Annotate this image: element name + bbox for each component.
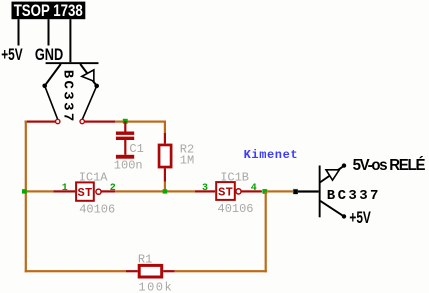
pin R2 top red (164, 133, 166, 144)
wire black to Q2 base (298, 190, 319, 192)
svg-text:100n: 100n (114, 158, 143, 172)
IC module TSOP1738 body (12, 2, 86, 21)
wire right vertical to R1 (265, 191, 267, 272)
svg-text:GND: GND (35, 47, 64, 65)
svg-text:BC337: BC337 (327, 188, 381, 204)
wire bottom orange left (25, 270, 126, 272)
pin IC1B input red (195, 190, 215, 192)
svg-text:1: 1 (62, 183, 68, 194)
svg-text:IC1B: IC1B (220, 171, 249, 185)
junction IC1B output (262, 189, 267, 194)
wire bottom orange right (175, 270, 267, 272)
capacitor C1 (116, 121, 134, 159)
wire left vertical (25, 121, 27, 273)
resistor R2 (159, 145, 171, 167)
svg-text:3: 3 (202, 183, 208, 194)
svg-text:+5V: +5V (349, 209, 371, 227)
junction left vertical (22, 189, 27, 193)
svg-text:Kimenet: Kimenet (244, 148, 299, 162)
pin R1 right red (163, 270, 175, 272)
op-amp gate IC1A 40106 (76, 182, 101, 200)
pin R1 left red (126, 270, 138, 272)
wire top orange segment to R2 (115, 121, 166, 123)
pin IC1B output red (241, 190, 262, 192)
svg-text:5V-os RELÉ: 5V-os RELÉ (353, 156, 426, 173)
transistor Q2 BC337 (right) (319, 163, 381, 218)
svg-text:IC1A: IC1A (79, 171, 109, 185)
pin circle Q1 emitter (80, 119, 84, 123)
junction R2 bottom (163, 189, 168, 193)
svg-text:4: 4 (251, 183, 257, 194)
junction Kimenet black (294, 190, 298, 195)
wire middle orange from left junction (27, 190, 53, 192)
svg-text:BC337: BC337 (60, 70, 76, 124)
wire TSOP pin1 to +5V (18, 19, 20, 45)
wire middle orange to Kimenet (267, 190, 293, 192)
pin IC1A input red (53, 190, 75, 192)
wire top-left red segment (25, 121, 55, 123)
svg-text:1M: 1M (180, 153, 194, 167)
op-amp gate IC1B 40106 (216, 182, 241, 200)
transistor Q1 BC337 (top) (42, 62, 99, 124)
wire top red segment right of circle (85, 121, 115, 123)
wire middle orange between stages (115, 190, 195, 192)
resistor R1 (139, 265, 162, 277)
pin IC1A output red (101, 190, 115, 192)
svg-text:40106: 40106 (79, 202, 115, 216)
svg-text:2: 2 (110, 183, 116, 194)
wire R2 bottom orange (164, 182, 166, 190)
pin circle Q1 collector (56, 119, 60, 123)
svg-text:TSOP 1738: TSOP 1738 (14, 2, 83, 21)
junction Kimenet green (293, 189, 298, 194)
svg-text:40106: 40106 (218, 202, 254, 216)
junction above C1 (123, 119, 128, 124)
svg-text:+5V: +5V (1, 46, 23, 64)
wire TSOP pin3 to Q1 base (69, 19, 71, 62)
pin R2 bottom red (164, 168, 166, 181)
wire TSOP pin2 to GND (48, 19, 50, 45)
svg-text:100k: 100k (138, 280, 173, 293)
svg-text:R1: R1 (138, 253, 152, 267)
svg-text:ST: ST (78, 186, 93, 200)
wire R2 top orange (164, 121, 166, 133)
svg-text:C1: C1 (129, 142, 143, 156)
svg-text:ST: ST (218, 186, 233, 200)
